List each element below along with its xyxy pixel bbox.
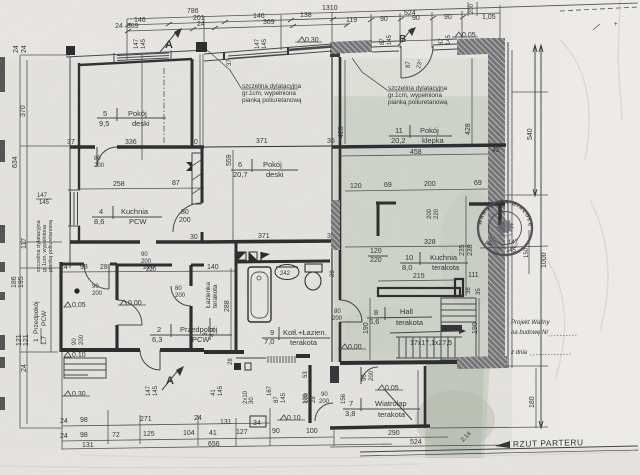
left dim rotated texts — [11, 45, 30, 372]
section marker A bottom — [162, 366, 184, 390]
room11 bottom wall — [332, 145, 506, 147]
room9 top wall — [236, 261, 330, 262]
bath3 rotated labels — [202, 282, 219, 340]
section marker A top — [160, 28, 182, 52]
wall y147 room6 top: continues from spine — [204, 146, 332, 147]
szczelina dylatacyjna rotated note (left) — [36, 219, 54, 272]
room 1 label rotated: 1 Przedpokój PCW — [33, 301, 48, 345]
level 0.10 bottom middle — [277, 415, 305, 422]
staircase — [441, 298, 476, 360]
hall bottom wall — [340, 362, 457, 363]
room2/bath wall — [189, 265, 192, 286]
porch steps left — [64, 358, 106, 378]
bottom right dims 290 524 — [340, 437, 448, 438]
scan edge marks left — [0, 57, 5, 410]
corner column top-left — [66, 46, 75, 55]
wiatrolap label — [343, 398, 420, 419]
right exterior wall hatched — [488, 38, 505, 366]
spine wall double line — [331, 57, 333, 362]
level mark 0.30 top — [295, 37, 322, 44]
top wall right wing: hatched pier left — [330, 40, 372, 54]
room6 bottom wall — [204, 241, 333, 242]
top dim texts row B — [134, 10, 416, 24]
below-wall dims rotated — [146, 358, 317, 404]
flag vent — [260, 252, 262, 262]
door room1/room2 — [117, 300, 142, 325]
boxed 34 — [250, 416, 266, 427]
top dim texts row A — [187, 5, 338, 15]
dims under stamp 42 147 145 — [480, 246, 548, 248]
top wall glazing right part — [433, 39, 457, 40]
chimney axis dash line room5 — [163, 68, 165, 145]
kitchen bottom wall with door gap — [70, 240, 140, 244]
door 90/200 into room1 — [84, 264, 109, 289]
bathtub — [248, 267, 271, 322]
dim row y190 — [345, 189, 488, 191]
left wing bottom wall — [61, 348, 140, 352]
level 0.00 room2 — [118, 300, 146, 307]
room 11 inner dim lines 428 — [344, 60, 346, 144]
door 80/200 room2->bath — [171, 286, 191, 306]
vent triangles — [186, 162, 192, 168]
round stamp WARSZAWA-BIALOLEKA — [0, 0, 533, 255]
door opening top — [399, 40, 433, 41]
spine hatched duct section — [331, 200, 340, 250]
door 80/200 room5/kitchen — [97, 147, 117, 167]
greenish scan wash over right wing — [334, 58, 504, 458]
top rotated window dims 147/145 left — [134, 3, 504, 57]
section marker B top — [398, 27, 416, 46]
top exterior wall outer line — [66, 50, 207, 57]
vent squares top of room9 — [238, 252, 246, 260]
bath3/room9 wall — [235, 242, 238, 352]
szczelina note left with leader — [207, 50, 302, 104]
room1 top wall with door gap — [61, 263, 84, 266]
level 0.05 room1 — [64, 302, 86, 309]
kitchen dim line 258/87 — [79, 188, 204, 189]
szczelina note right with leader — [352, 58, 448, 106]
left dimension chain lines — [20, 55, 70, 428]
kitchen right wall — [201, 147, 204, 203]
dim 328 line — [345, 246, 470, 247]
kitchen counter band — [378, 288, 460, 296]
door 200/220 labels — [427, 208, 440, 219]
door 80/200 into room9 from hall — [332, 309, 343, 322]
window leader room5 — [141, 55, 143, 160]
kitchen10 L-wall top left — [376, 202, 396, 205]
chimney column top-middle — [196, 42, 207, 52]
door 80/200 kitchen/room6 — [173, 203, 202, 232]
vertical extension lines top — [126, 19, 128, 60]
dim texts on wall y146 — [67, 138, 335, 146]
door 90/200 hall->wiatrolap — [360, 367, 362, 384]
RZUT PARTERU title with underlines — [360, 437, 638, 456]
left 147/145 window dim — [36, 193, 52, 206]
left exterior wall — [69, 57, 71, 268]
door B leaf and arc (top wall) — [400, 46, 402, 78]
top exterior wall inner line — [79, 59, 192, 65]
level 0.00 wiatrolap — [338, 344, 366, 351]
dim row y271 — [60, 271, 236, 272]
level 0.10 left — [64, 352, 86, 359]
duct shaft right of kitchen — [192, 153, 201, 204]
kitchen10 labels 120/220 — [368, 248, 388, 264]
wiatrolap ramp diagonal — [384, 389, 412, 420]
chain tick marks — [125, 15, 466, 33]
wiatrolap bottom wall — [330, 426, 430, 428]
misc faint marks top right — [593, 24, 600, 30]
room6 top wall with long window — [204, 44, 332, 66]
hall label — [367, 307, 432, 327]
level mark 0.05 top right — [452, 32, 478, 39]
stair dims 190 — [369, 298, 371, 360]
level 0.30 porch — [62, 391, 90, 398]
room1/room2 wall — [115, 264, 118, 300]
kitchen10 label — [400, 252, 468, 272]
top dim texts row C — [115, 14, 496, 30]
window W1 in top wall — [114, 51, 171, 64]
toilet — [305, 264, 322, 272]
room 5 label — [97, 108, 166, 128]
kitchen label — [92, 206, 162, 226]
room9 label — [262, 327, 330, 347]
dim 288 — [230, 268, 232, 350]
level 0.05 wiatrolap — [375, 385, 403, 392]
washbasin 242 — [275, 265, 299, 280]
rotated 90/200 room1 lower door — [72, 334, 85, 345]
stair walk line with arrow — [390, 331, 459, 333]
window kitchen left wall — [68, 190, 80, 226]
wall between room5 and kitchen — [70, 145, 95, 148]
small squares on bottom wall — [234, 363, 241, 370]
dim 235 vertical kitchen — [465, 196, 467, 296]
spine wall top block — [330, 44, 340, 57]
room9 bottom wall with window — [204, 350, 244, 354]
top wall glazing left part — [372, 41, 399, 42]
room2 top wall — [117, 264, 172, 267]
room1 bump-out left wall — [59, 262, 62, 352]
entry side wall — [308, 365, 311, 423]
dim 559 room6 — [232, 150, 234, 240]
wall room5/room6 — [191, 59, 194, 147]
room6 label — [231, 159, 298, 179]
room 11 label — [389, 125, 452, 145]
front door arc — [140, 350, 160, 370]
door 90/200 spine bottom w arc — [319, 392, 330, 405]
top wall right hatched pier — [457, 38, 488, 55]
kitchen10 right wall stub — [469, 202, 505, 205]
top dimension chain lines — [125, 2, 638, 60]
room2 label — [150, 324, 232, 344]
eagle blob — [496, 219, 514, 234]
handwritten project note — [510, 320, 578, 356]
wiatrolap right wall — [424, 366, 427, 428]
